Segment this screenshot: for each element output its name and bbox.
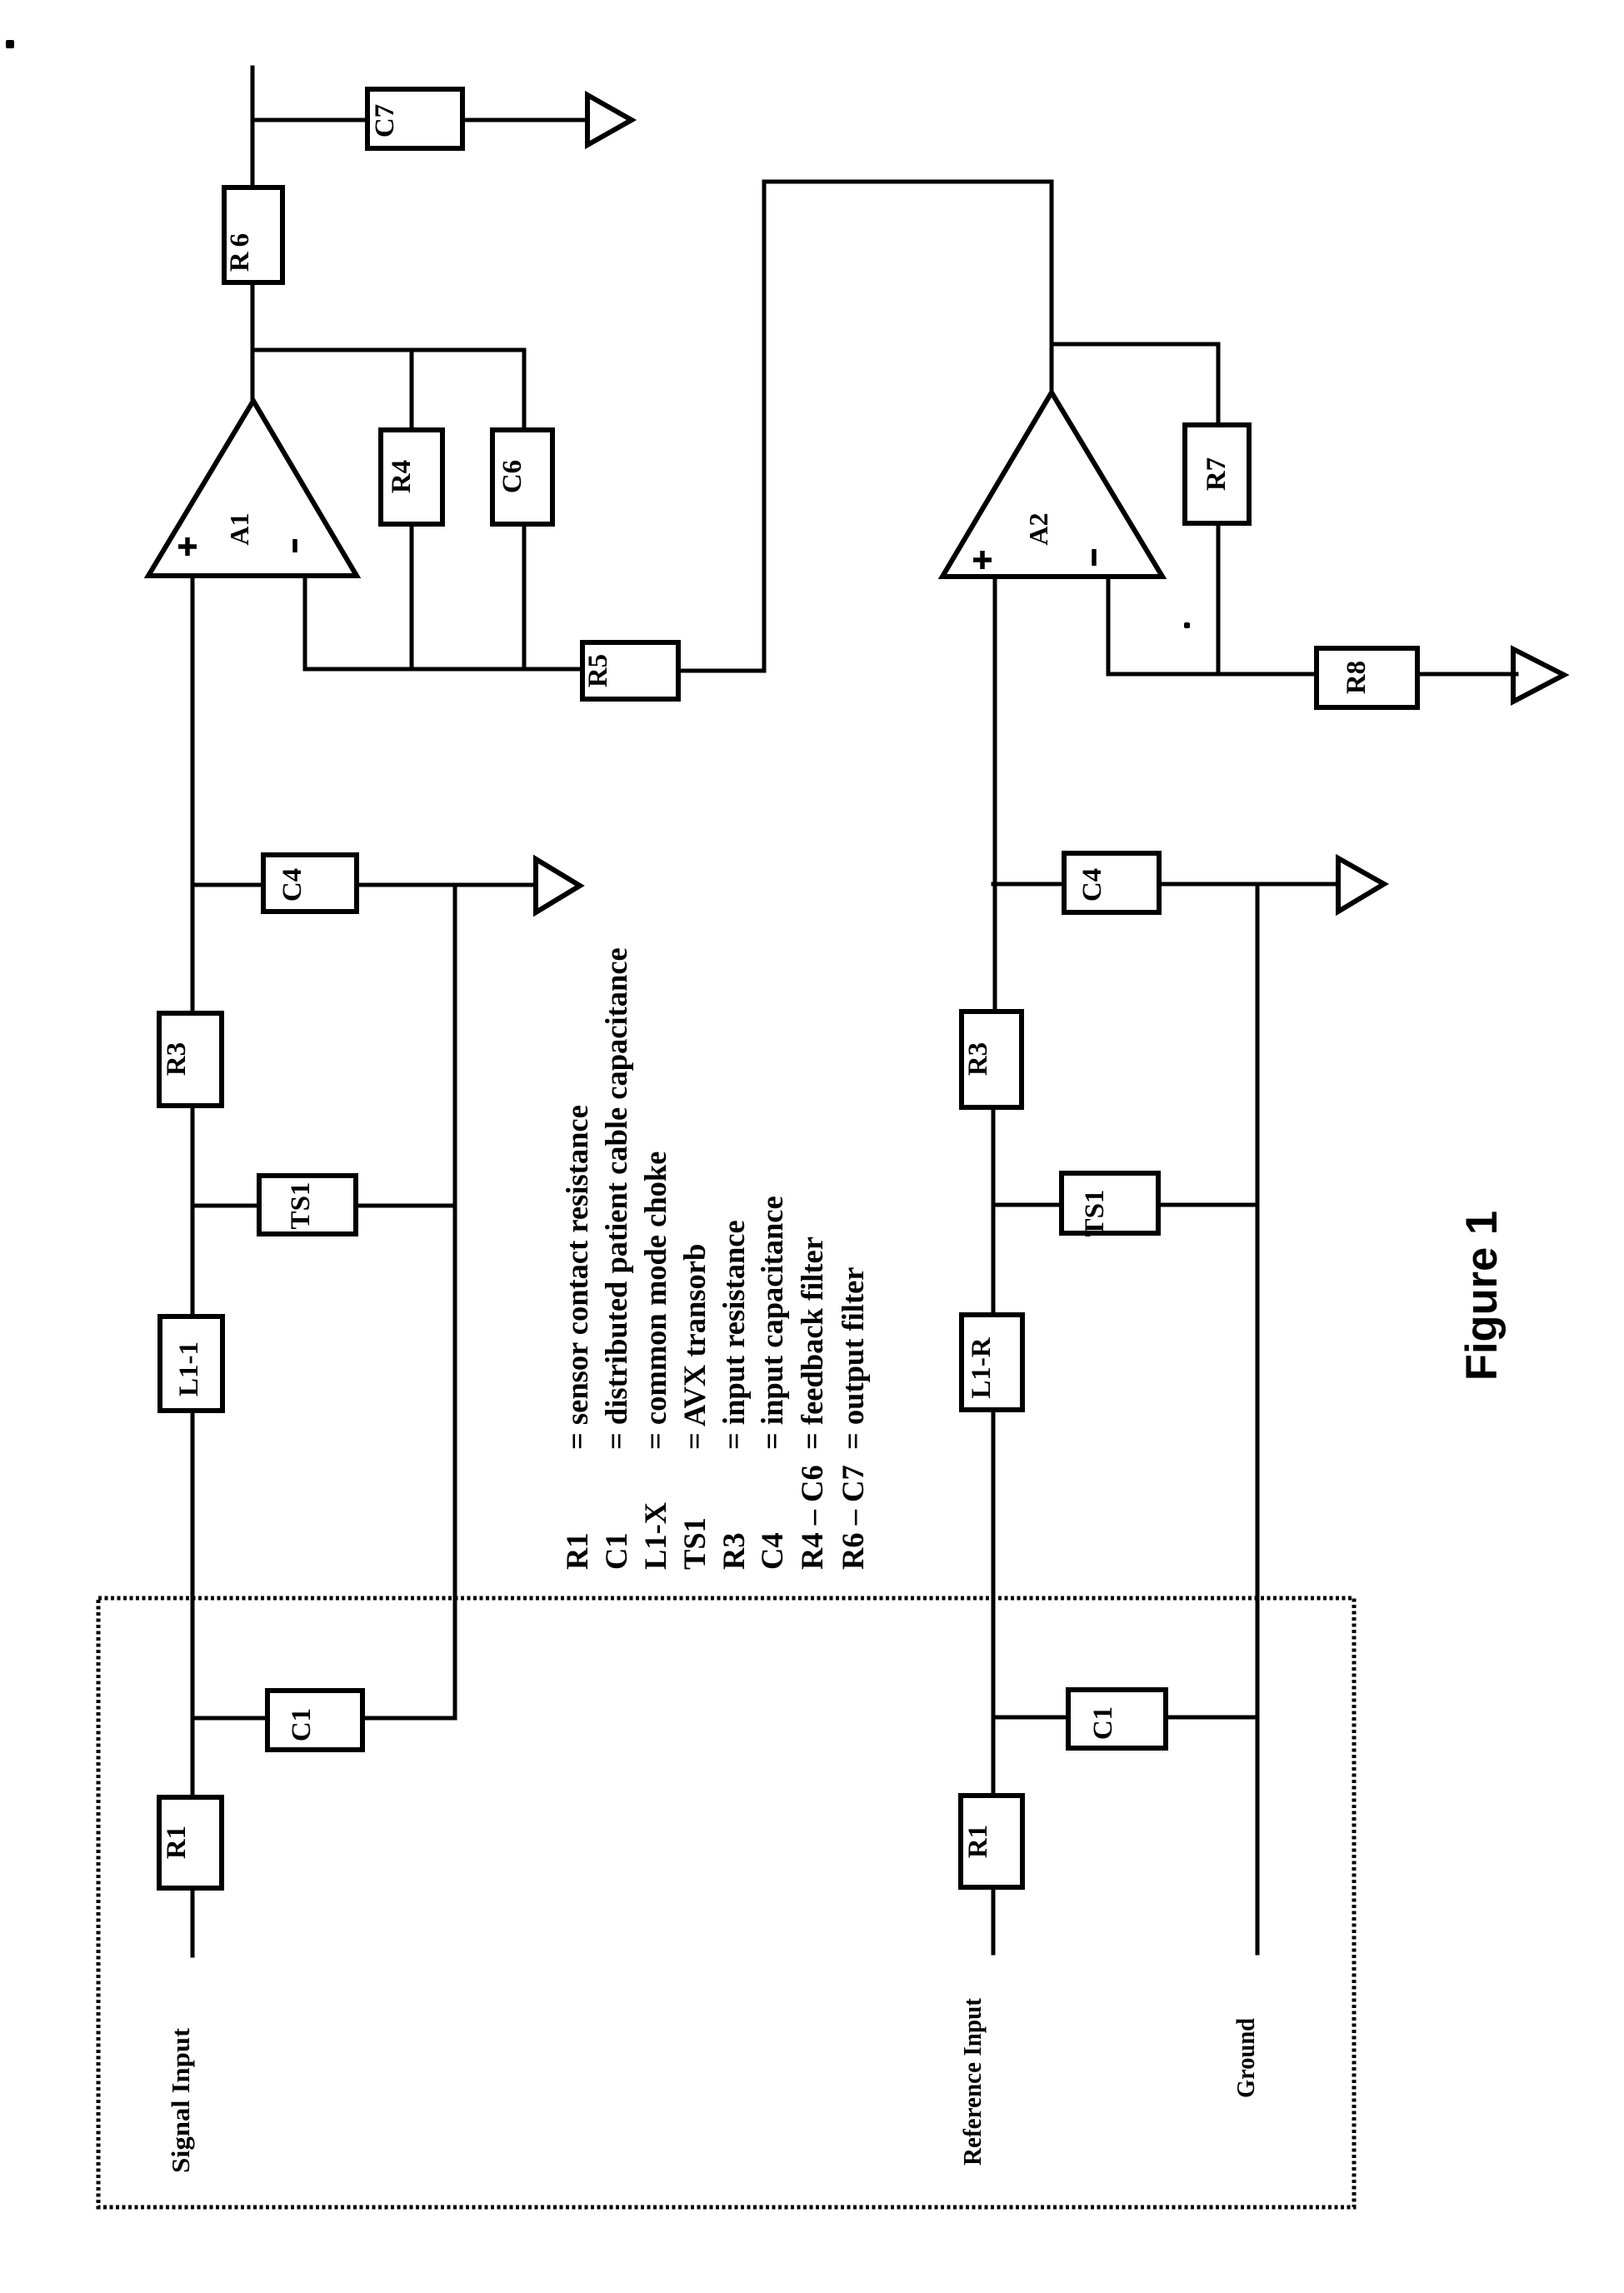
svg-text:= common mode choke: = common mode choke xyxy=(638,1151,672,1450)
svg-text:= AVX transorb: = AVX transorb xyxy=(677,1244,712,1450)
svg-text:Signal Input: Signal Input xyxy=(166,2027,195,2173)
svg-text:R4 – C6: R4 – C6 xyxy=(795,1465,829,1570)
svg-text:TS1: TS1 xyxy=(286,1182,316,1230)
svg-text:R3: R3 xyxy=(963,1042,993,1076)
svg-text:C1: C1 xyxy=(287,1708,317,1741)
svg-text:C1: C1 xyxy=(599,1532,633,1570)
svg-text:R7: R7 xyxy=(1202,457,1232,491)
svg-text:C4: C4 xyxy=(277,868,307,902)
svg-text:Ground: Ground xyxy=(1231,2018,1260,2098)
svg-text:C7: C7 xyxy=(370,104,400,137)
svg-text:R5: R5 xyxy=(583,654,613,687)
svg-text:C4: C4 xyxy=(755,1532,789,1570)
svg-text:= distributed patient cable ca: = distributed patient cable capacitance xyxy=(599,947,633,1450)
svg-text:= feedback filter: = feedback filter xyxy=(795,1236,829,1450)
svg-text:R6 – C7: R6 – C7 xyxy=(836,1465,870,1570)
svg-text:TS1: TS1 xyxy=(677,1517,712,1570)
svg-text:R3: R3 xyxy=(717,1532,751,1570)
svg-text:R6: R6 xyxy=(225,228,255,272)
svg-text:= sensor contact resistance: = sensor contact resistance xyxy=(560,1105,594,1450)
svg-text:C6: C6 xyxy=(497,460,527,493)
svg-text:C4: C4 xyxy=(1077,868,1107,902)
svg-text:R1: R1 xyxy=(162,1826,192,1859)
svg-text:= input capacitance: = input capacitance xyxy=(755,1196,789,1450)
svg-text:Reference Input: Reference Input xyxy=(957,1997,987,2166)
svg-text:C1: C1 xyxy=(1088,1706,1118,1740)
svg-text:A2: A2 xyxy=(1023,512,1053,545)
svg-text:= output filter: = output filter xyxy=(836,1267,870,1451)
svg-text:A1: A1 xyxy=(224,512,254,545)
svg-text:R1: R1 xyxy=(560,1532,594,1570)
svg-text:L1-R: L1-R xyxy=(967,1336,997,1399)
svg-text:TS1: TS1 xyxy=(1080,1190,1110,1237)
svg-text:R4: R4 xyxy=(387,460,417,493)
svg-text:R1: R1 xyxy=(963,1825,993,1858)
svg-text:R3: R3 xyxy=(162,1042,192,1076)
svg-text:R8: R8 xyxy=(1342,661,1372,694)
svg-text:L1-1: L1-1 xyxy=(174,1341,204,1396)
svg-text:Figure 1: Figure 1 xyxy=(1457,1211,1507,1381)
svg-text:L1-X: L1-X xyxy=(638,1502,672,1570)
svg-text:= input resistance: = input resistance xyxy=(717,1220,751,1450)
